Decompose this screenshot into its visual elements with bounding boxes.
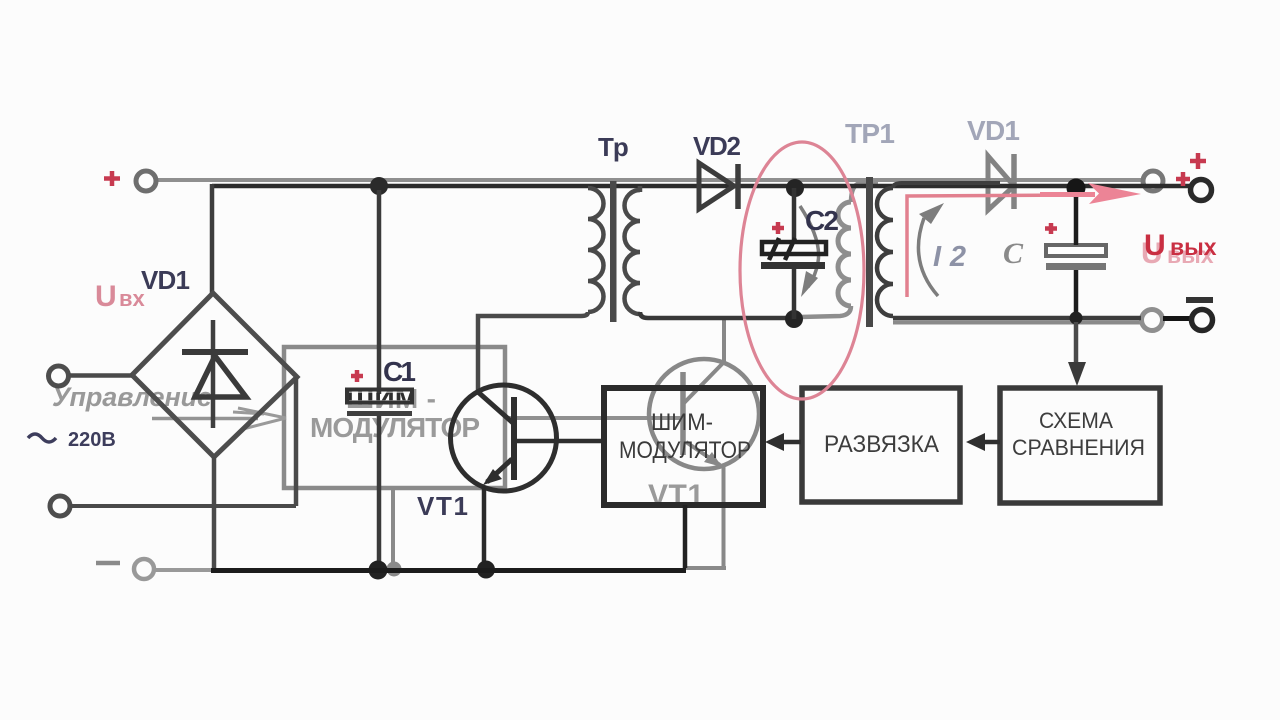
svg-text:ТР1: ТР1 xyxy=(845,118,895,149)
svg-text:VD2: VD2 xyxy=(693,131,741,161)
svg-text:Управление: Управление xyxy=(52,382,212,412)
svg-text:U: U xyxy=(95,280,117,313)
svg-text:C2: C2 xyxy=(805,205,839,236)
svg-text:вых: вых xyxy=(1170,234,1217,260)
svg-text:СРАВНЕНИЯ: СРАВНЕНИЯ xyxy=(1012,435,1145,460)
svg-text:U: U xyxy=(1144,229,1166,262)
svg-text:VD1: VD1 xyxy=(141,265,190,295)
svg-text:СХЕМА: СХЕМА xyxy=(1039,408,1113,433)
svg-text:VD1: VD1 xyxy=(967,115,1020,146)
svg-text:I2: I2 xyxy=(933,241,966,273)
svg-text:Тр: Тр xyxy=(598,132,629,162)
svg-text:С1: С1 xyxy=(383,356,416,387)
svg-text:МОДУЛЯТОР: МОДУЛЯТОР xyxy=(619,437,751,464)
svg-text:VT1: VT1 xyxy=(417,491,468,521)
svg-text:C: C xyxy=(1003,237,1024,270)
svg-text:220В: 220В xyxy=(68,429,116,451)
svg-text:РАЗВЯЗКА: РАЗВЯЗКА xyxy=(824,431,939,458)
svg-text:ШИМ-: ШИМ- xyxy=(651,409,713,436)
